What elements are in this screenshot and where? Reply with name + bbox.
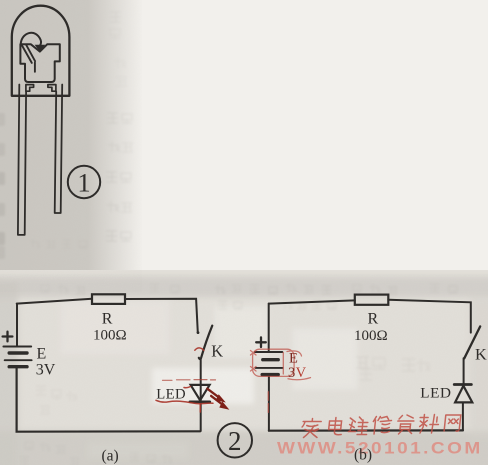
svg-text:100Ω: 100Ω [93,327,127,343]
svg-text:K: K [475,344,487,363]
svg-text:2: 2 [228,426,242,456]
svg-text:3V: 3V [36,362,56,379]
svg-text:V: V [296,365,307,381]
svg-text:LED: LED [156,386,186,402]
svg-text:LED: LED [420,384,451,401]
svg-text:100Ω: 100Ω [354,328,388,344]
svg-text:WWW.520101.COM: WWW.520101.COM [277,438,483,457]
svg-text:3: 3 [288,365,295,381]
svg-text:(b): (b) [354,447,372,464]
svg-text:(a): (a) [102,448,119,465]
svg-text:1: 1 [77,168,90,198]
svg-text:R: R [102,311,113,328]
svg-text:R: R [368,311,379,328]
svg-text:K: K [211,342,223,361]
svg-text:E: E [37,346,47,363]
